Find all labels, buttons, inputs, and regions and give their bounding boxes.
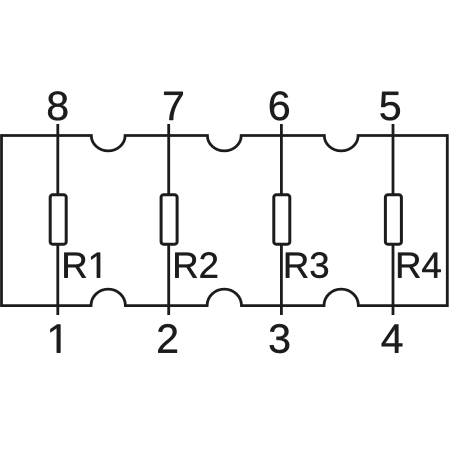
resistor R1: [50, 195, 66, 244]
pin 4: [382, 324, 403, 352]
wire pin 6 to pin 3: [280, 124, 283, 315]
resistor R3: [274, 195, 290, 244]
resistor R4: [385, 195, 401, 244]
pin 3: [270, 324, 289, 353]
pin 6: [270, 91, 289, 120]
package body top edge with index notches: [2, 136, 448, 151]
resistor R2: [161, 195, 177, 244]
label R2: [175, 252, 217, 277]
package body left edge: [0, 134, 3, 307]
package body right edge: [446, 134, 449, 307]
pin 2: [158, 324, 177, 353]
label R4: [398, 253, 441, 278]
pin 8: [48, 91, 67, 120]
pin 7: [164, 92, 183, 120]
wire pin 7 to pin 2: [167, 124, 170, 315]
pin 1: [50, 324, 60, 352]
pin 5: [380, 92, 399, 121]
wire pin 8 to pin 1: [56, 124, 59, 315]
wire pin 5 to pin 4: [392, 124, 395, 315]
label R3: [286, 252, 328, 278]
package body bottom edge with index notches: [2, 289, 448, 305]
label R1: [64, 253, 100, 278]
